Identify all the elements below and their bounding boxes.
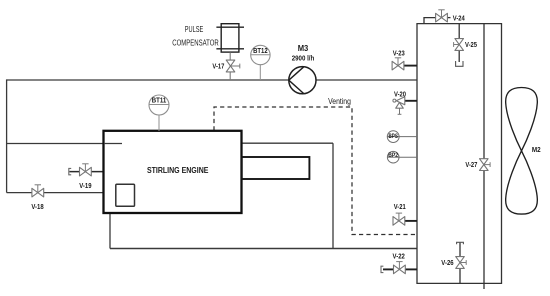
instrument BT11 [149,95,169,131]
heater head rectangle [242,157,310,179]
svg-text:V-25: V-25 [465,42,477,49]
drain funnel under V-25 [456,61,463,66]
cooler column right edge [501,24,503,284]
svg-text:V-20: V-20 [394,92,406,99]
venting dashed line [214,107,417,235]
svg-text:BPS: BPS [389,133,399,140]
cooler column left edge [416,24,418,284]
valve V-18 [32,185,44,197]
wire: right drop x=333 [332,143,334,248]
STIRLING ENGINE box [104,131,242,213]
svg-text:BT11: BT11 [152,98,167,105]
svg-text:V-24: V-24 [453,15,465,22]
svg-text:BT12: BT12 [253,48,268,55]
valve V-21 [404,220,417,222]
valve V-24 branch at column top [424,18,436,24]
svg-text:V-22: V-22 [393,254,405,261]
svg-text:PULSE: PULSE [185,25,204,34]
svg-text:V-21: V-21 [394,204,406,211]
wire: engine drain drop x=110 [110,199,116,249]
valve V-26 with stem cap [459,243,461,284]
pulse compensator vessel [216,24,244,52]
cooler column internal pipe x=484 [483,24,485,289]
wire: main supply line y=80 from left riser to cooler column [7,79,417,81]
engine connection square [116,184,135,206]
svg-text:STIRLING ENGINE: STIRLING ENGINE [147,165,209,175]
svg-text:M2: M2 [532,147,541,154]
instrument BP2 [387,151,417,163]
cooler column bottom edge [416,282,502,284]
wire: engine outlet y=143 to right drop [220,142,333,144]
instrument BT12 [251,45,270,80]
svg-text:V-17: V-17 [212,64,224,71]
pump M3 [289,67,316,94]
relief valve V-20 [404,100,417,102]
svg-text:V-19: V-19 [79,183,91,190]
svg-text:COMPENSATOR: COMPENSATOR [172,38,218,47]
valve V-27 on internal pipe [480,159,491,171]
svg-text:2900 l/h: 2900 l/h [292,53,315,62]
svg-text:V-27: V-27 [465,162,477,169]
wire: V-19 branch y=171.6 [70,171,104,173]
wire: left riser x=6.6 [6,79,8,192]
cooler column top edge [416,23,502,25]
svg-text:BP2: BP2 [388,152,398,159]
svg-text:M3: M3 [298,44,309,53]
fan M2 [506,88,538,215]
valve V-22 with hose cap [404,268,417,270]
instrument BPS [387,131,417,143]
valve V-17 (vertical) [226,60,240,72]
valve V-23 with stub to column [404,65,417,67]
svg-text:V-23: V-23 [393,50,405,57]
valve V-19 with hose cap [69,168,71,174]
valve V-25 branch with drain funnel [458,24,460,62]
wire: compensator stem x=230 [229,52,231,80]
svg-text:Venting: Venting [328,97,351,106]
wire: interior stub left y=143.5 [104,143,122,145]
svg-text:V-18: V-18 [31,204,43,211]
wire: middle feed line y=143.5 into engine [7,143,122,145]
wire: V-18 branch y=192.6 [7,192,116,194]
wire: return line y=248.5 [110,248,417,250]
svg-text:V-26: V-26 [441,260,453,267]
